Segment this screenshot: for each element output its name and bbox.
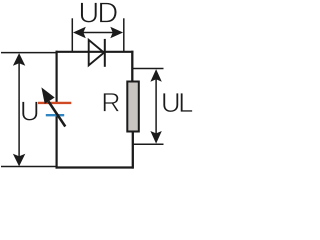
resistor R body [127, 82, 139, 132]
wire right side upper segment [131, 51, 133, 81]
battery long plate (orange) [37, 102, 71, 104]
UD right arrowhead [110, 27, 123, 38]
wire top side of loop [56, 51, 134, 53]
U dimension upper arrowhead [13, 53, 25, 66]
wire left side upper segment [55, 51, 57, 102]
UL dimension arrow shaft [155, 75, 157, 138]
UL lower arrowhead [150, 131, 161, 144]
UD dimension left tick [71, 18, 73, 51]
UL dimension lower reference line [132, 143, 164, 145]
svg-text:UL: UL [161, 87, 194, 118]
diode cathode bar [104, 39, 106, 67]
svg-text:UD: UD [78, 0, 118, 29]
UD dimension line [79, 32, 117, 34]
UD left arrowhead [73, 27, 86, 38]
svg-text:U: U [20, 96, 40, 127]
U dimension arrow shaft [18, 60, 20, 160]
battery short plate (blue) [46, 114, 64, 116]
UL upper arrowhead [150, 69, 161, 82]
svg-text:R: R [101, 87, 120, 117]
wire right side lower segment [132, 132, 134, 169]
U dimension lower arrowhead [13, 154, 25, 167]
UL dimension upper reference line [132, 68, 164, 70]
variable-source diagonal arrowhead [42, 88, 54, 103]
wire bottom side of loop [56, 166, 134, 168]
diode triangle (anode) [89, 40, 104, 65]
U dimension bottom reference line [1, 166, 56, 168]
variable-source diagonal arrow shaft [49, 102, 66, 127]
UD dimension right tick [123, 18, 125, 51]
U dimension top reference line [1, 52, 56, 54]
wire left side lower segment [55, 116, 57, 169]
